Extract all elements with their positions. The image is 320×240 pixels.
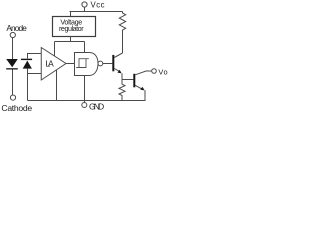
svg-text:regulator: regulator — [59, 24, 84, 33]
svg-text:Vcc: Vcc — [91, 0, 105, 9]
svg-text:Anode: Anode — [6, 23, 27, 33]
svg-text:Cathode: Cathode — [1, 103, 32, 113]
svg-text:Vo: Vo — [158, 68, 167, 77]
svg-text:LA: LA — [46, 59, 54, 69]
svg-text:GND: GND — [89, 102, 104, 112]
